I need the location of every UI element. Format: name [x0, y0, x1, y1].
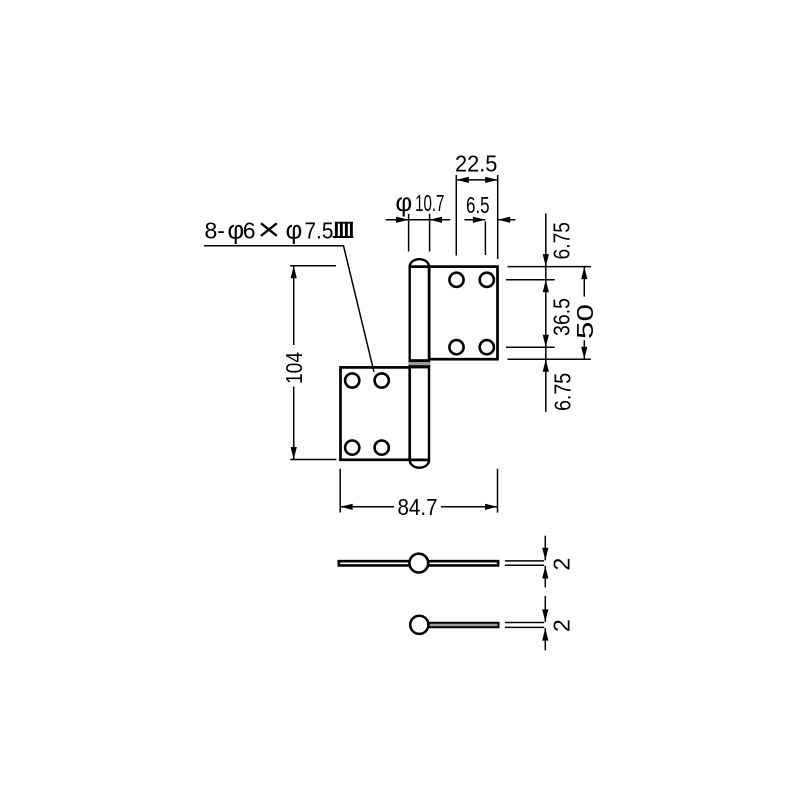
svg-text:φ: φ — [227, 215, 244, 245]
svg-text:50: 50 — [572, 304, 598, 339]
svg-text:6.75: 6.75 — [550, 373, 576, 411]
svg-text:6.5: 6.5 — [466, 192, 490, 218]
svg-text:84.7: 84.7 — [398, 494, 438, 520]
svg-text:22.5: 22.5 — [455, 151, 497, 177]
svg-text:7.5: 7.5 — [305, 218, 334, 244]
svg-text:2: 2 — [549, 558, 575, 571]
svg-text:104: 104 — [281, 352, 307, 384]
svg-text:8-: 8- — [205, 218, 225, 244]
svg-text:36.5: 36.5 — [548, 298, 574, 336]
svg-text:10.7: 10.7 — [415, 190, 444, 216]
svg-text:2: 2 — [549, 619, 575, 632]
svg-text:φ: φ — [286, 215, 303, 245]
svg-text:φ: φ — [395, 187, 412, 217]
svg-text:6: 6 — [243, 218, 256, 244]
svg-text:6.75: 6.75 — [548, 222, 574, 260]
